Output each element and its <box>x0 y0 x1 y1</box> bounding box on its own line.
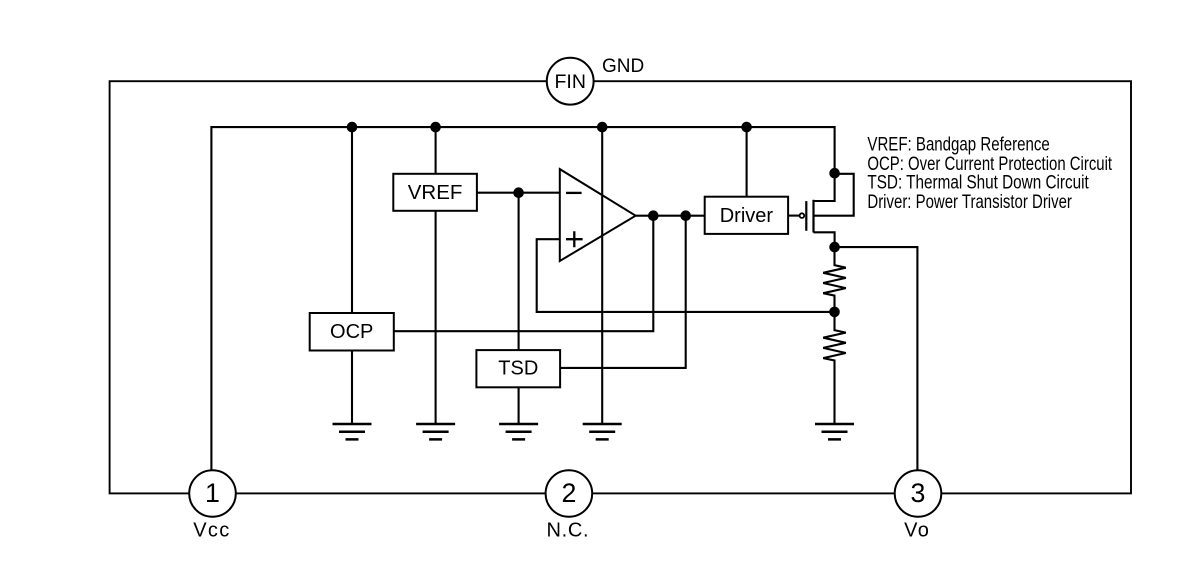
svg-text:1: 1 <box>205 478 220 508</box>
svg-text:N.C.: N.C. <box>546 519 589 541</box>
svg-text:GND: GND <box>602 56 644 77</box>
svg-text:2: 2 <box>561 478 576 508</box>
svg-text:FIN: FIN <box>554 71 585 93</box>
svg-text:VREF: VREF <box>408 181 463 204</box>
svg-text:TSD: TSD <box>498 358 538 380</box>
svg-text:OCP: OCP <box>330 321 373 343</box>
svg-text:3: 3 <box>911 478 926 508</box>
svg-text:Driver: Power Transistor Drive: Driver: Power Transistor Driver <box>867 190 1072 213</box>
svg-text:Vcc: Vcc <box>193 519 230 541</box>
svg-text:Driver: Driver <box>720 205 774 227</box>
svg-text:Vo: Vo <box>904 519 930 541</box>
